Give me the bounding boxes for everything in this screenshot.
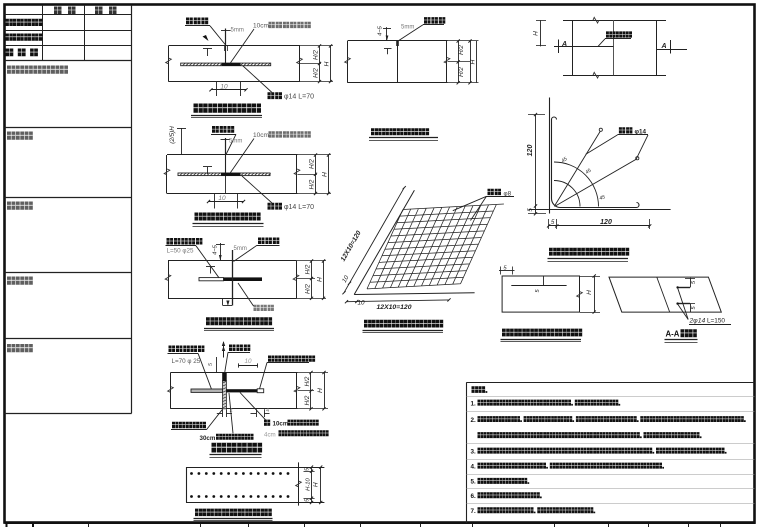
svg-text:H: H <box>324 61 331 66</box>
D2 joint line <box>225 155 227 173</box>
D4 joint filler board <box>223 381 227 409</box>
D8 leader <box>598 39 605 47</box>
D8 slab rectangle <box>563 20 666 22</box>
D5 dim H <box>320 467 322 502</box>
D3 label 填缝料 <box>258 238 279 245</box>
D4 leader 油浸软木板 <box>207 409 223 429</box>
svg-text:10: 10 <box>244 358 252 365</box>
seal cell 注册（执业）章 <box>7 66 68 74</box>
D1 right dims H/2 H/2 H <box>300 45 333 47</box>
svg-text:10: 10 <box>220 83 228 90</box>
D7 title 板锐角处钢筋平面布置 <box>364 320 443 328</box>
svg-text:H: H <box>317 388 324 393</box>
D11 dowel bar bottom <box>677 303 690 305</box>
D4 label 油浸软木板 <box>172 422 206 428</box>
svg-text:5mm: 5mm <box>234 246 247 252</box>
D3 dowel bar solid half <box>224 277 263 281</box>
D3 right dims <box>297 260 327 262</box>
D3 bottom notch dim <box>222 299 224 306</box>
D3 label 传力杆 圆钢 <box>167 238 188 245</box>
D9 label 圆钢 φ14 <box>619 127 632 133</box>
D4 right dims <box>298 372 329 374</box>
D6 slab outline <box>348 40 448 42</box>
D3 leader 填缝料 <box>234 245 258 261</box>
svg-text:H/2: H/2 <box>458 45 465 55</box>
D7 bottom dim <box>347 300 450 302</box>
svg-text:H-10: H-10 <box>306 478 312 491</box>
D10 title 胀缝角隅钢筋立面布置 <box>502 329 582 337</box>
D9 title 胀缝角隅钢筋平面布置 <box>549 248 629 256</box>
D5 title 板锐角处钢筋立面布置 <box>195 509 272 516</box>
svg-text:L=70 φ 25: L=70 φ 25 <box>172 358 201 365</box>
D4 label 聚氯乙烯小套筒 <box>268 356 315 362</box>
svg-text:H/2: H/2 <box>313 50 320 60</box>
svg-text:3.: 3. <box>471 448 477 455</box>
D3 joint line <box>232 250 234 306</box>
svg-text:H/2: H/2 <box>313 68 320 78</box>
D11 slab parallelogram <box>609 277 721 312</box>
svg-text:7.: 7. <box>471 508 477 515</box>
svg-text:H: H <box>322 172 329 177</box>
D2 title 纵向施工缝构造图 <box>195 213 261 221</box>
svg-text:10cm: 10cm <box>253 132 269 139</box>
D4 leader 小套筒 <box>260 363 268 390</box>
seal cell 竣工章 <box>7 344 33 352</box>
D8 break marks <box>593 17 599 23</box>
D1 groove depth marks <box>225 29 227 46</box>
svg-text:10: 10 <box>357 300 365 307</box>
D4 bottom dim 4 <box>256 409 258 417</box>
svg-text:A: A <box>661 43 667 50</box>
svg-text:L=150: L=150 <box>707 318 725 325</box>
D4 label 填缝料 <box>229 345 250 352</box>
svg-text:10cm: 10cm <box>273 421 289 428</box>
svg-text:4~5: 4~5 <box>378 25 384 36</box>
D8 H dim <box>540 20 542 46</box>
D3 label 涂沥青 <box>254 305 274 311</box>
D2 edge break marks <box>164 169 170 175</box>
D1 joint line <box>225 46 227 63</box>
D7 left slanted dim <box>344 188 404 293</box>
D1 leader 涂沥青 <box>230 29 254 64</box>
D4 leader 30cm 涂沥青 <box>229 393 233 433</box>
svg-text:A: A <box>561 41 567 48</box>
svg-text:10: 10 <box>218 195 226 202</box>
svg-text:L=50 φ25: L=50 φ25 <box>167 248 195 255</box>
D4 slab outline <box>171 372 298 374</box>
D6 edge break marks <box>345 58 351 64</box>
D11 joint slant line <box>657 277 670 312</box>
D4 top arrow joint width <box>223 342 225 358</box>
D3 edge break marks <box>165 275 171 281</box>
svg-text:6.: 6. <box>471 493 477 500</box>
D4 leader 填缝料 <box>225 352 228 372</box>
D1 tie bar <box>181 63 271 66</box>
D4 title 胀缝构造图 <box>212 443 263 453</box>
row label 设计人 <box>6 49 38 57</box>
seal cell 审图章 <box>7 277 33 285</box>
D2 bottom dim 10 <box>214 194 216 209</box>
D6 title 横向缩缝构造图一 <box>371 128 429 135</box>
D9 bottom dim 5 120 <box>548 219 550 229</box>
row label 专业负责人 <box>6 34 43 41</box>
svg-text:2.: 2. <box>471 417 477 424</box>
D9 inner arc <box>554 181 580 207</box>
notes heading 说明 <box>472 386 488 393</box>
svg-text:5mm: 5mm <box>229 139 242 145</box>
D4 leader 传力杆 <box>198 353 212 389</box>
seal cell 出图章 <box>7 202 33 210</box>
D6 depth T mark <box>384 48 392 50</box>
D4 leader 小套子 <box>240 393 266 420</box>
D1 slab outline <box>169 45 301 47</box>
D11 dowel bar top <box>677 287 690 289</box>
notes box frame <box>466 383 468 524</box>
seal cell 预留章 <box>7 132 33 140</box>
note 2 line 2 <box>478 432 702 438</box>
D9 label leaders <box>586 135 618 155</box>
svg-text:5mm: 5mm <box>231 28 244 34</box>
svg-text:120: 120 <box>527 145 534 157</box>
header cell 签名 <box>95 7 103 15</box>
svg-text:4cm: 4cm <box>264 431 276 438</box>
D2 right dims <box>298 154 332 156</box>
svg-text:H: H <box>586 290 593 295</box>
svg-text:1.: 1. <box>471 400 477 407</box>
D4 edge break marks <box>168 387 174 393</box>
D8 label 边缘钢筋 <box>606 31 632 37</box>
D3 leader 涂沥青 <box>238 283 254 306</box>
D9 edge lines <box>549 98 551 214</box>
header cell 实名 <box>54 7 62 15</box>
D3 dowel bar sleeve half <box>199 278 224 281</box>
D4 dowel end cap <box>257 389 264 393</box>
D7 label 钢筋 φ8 <box>488 189 502 195</box>
D6 joint line <box>397 41 399 83</box>
svg-text:(2/5)H: (2/5)H <box>169 126 176 144</box>
D1 title 纵向缩缝构造图 <box>194 104 262 113</box>
bottom title bar line <box>5 522 756 524</box>
D2 slab outline <box>167 154 298 156</box>
D5 right edge break <box>296 481 302 487</box>
D4 label 传力杆 圆钢 <box>169 346 190 353</box>
svg-text:12X10=120: 12X10=120 <box>377 304 412 311</box>
D1 bottom dim 10 <box>216 82 218 96</box>
svg-text:φ14 L=70: φ14 L=70 <box>284 204 314 211</box>
D8 centre joint line <box>613 20 615 75</box>
D10 right edge break <box>577 292 583 298</box>
svg-text:H/2: H/2 <box>309 159 316 169</box>
D2 groove depth mark <box>181 128 183 155</box>
D4 dowel bar solid half <box>226 389 257 392</box>
svg-text:4: 4 <box>266 408 269 414</box>
D7 mesh grid <box>367 204 504 289</box>
svg-text:H/2: H/2 <box>305 284 312 294</box>
D4 dowel bar sleeve half <box>191 389 223 392</box>
D6 leader 填缝料 <box>399 25 423 41</box>
svg-text:5.: 5. <box>471 479 477 486</box>
D10 corner bar line <box>511 285 566 287</box>
D2 leader 填缝料 <box>226 134 236 154</box>
svg-text:H: H <box>317 277 324 282</box>
D2 tie bar <box>178 173 270 176</box>
svg-text:A-A: A-A <box>666 330 680 339</box>
D10 dim 5 top-left <box>500 267 502 275</box>
D3 depth T mark <box>206 266 215 268</box>
D1 label 填缝料 <box>186 18 208 25</box>
D6 dim 4~5 <box>386 27 388 41</box>
D2 leader 涂沥青 <box>230 139 254 174</box>
svg-text:120: 120 <box>600 219 612 226</box>
D11 dim 5 bottom <box>690 304 692 313</box>
D10 dim H <box>580 276 600 278</box>
svg-text:H/2: H/2 <box>458 67 465 77</box>
svg-text:φ14 L=70: φ14 L=70 <box>284 94 314 101</box>
D5 rebar dots <box>190 472 193 475</box>
D2 label 填缝料 <box>212 126 234 133</box>
D4 dim 10 <box>238 363 240 367</box>
svg-text:2φ14: 2φ14 <box>689 318 706 325</box>
D9 radial bar 2 <box>555 159 637 206</box>
D2 label 拉杆 φ14 L=70 <box>242 176 272 203</box>
D9 corner bar with hooks <box>552 117 640 208</box>
D11 dim 5 top <box>690 278 692 288</box>
D11 leaders to label <box>678 288 689 320</box>
D9 left dim 120 5 <box>528 114 545 116</box>
D7 leaders <box>453 196 487 210</box>
svg-text:H: H <box>312 482 319 487</box>
D4 sealant cap <box>222 373 227 382</box>
D8 section mark A left <box>558 40 560 54</box>
svg-text:10cm: 10cm <box>253 23 269 30</box>
svg-text:H/2: H/2 <box>304 395 311 405</box>
D8 mid horizontal line <box>554 46 613 48</box>
svg-text:5mm: 5mm <box>401 25 414 31</box>
row label 项目负责人 <box>6 19 43 26</box>
D3 dim 4~5 <box>220 243 222 261</box>
D4 label 长10cm 的小套子留 <box>264 420 270 426</box>
title block table <box>5 14 132 16</box>
svg-text:H: H <box>533 31 540 36</box>
D6 label 填缝料 <box>424 17 445 24</box>
D1 label 拉杆 φ14 L=70 <box>243 66 273 93</box>
D9 outer arc <box>554 162 599 207</box>
svg-text:H/2: H/2 <box>305 264 312 274</box>
svg-text:30cm: 30cm <box>200 435 216 442</box>
svg-text:H/2: H/2 <box>309 179 316 189</box>
D3 leader 传力杆 <box>196 246 219 278</box>
svg-text:4.: 4. <box>471 463 477 470</box>
D3 slab outline <box>168 260 297 262</box>
D8 section mark A right <box>657 49 687 51</box>
svg-text:4~5: 4~5 <box>213 244 219 255</box>
D7 slab corner edge lines <box>354 293 474 295</box>
D6 right dims <box>448 40 479 42</box>
D4 bottom dim 2 <box>222 409 224 417</box>
D5 slab rectangle <box>186 467 324 469</box>
D10 slab rectangle <box>502 276 579 312</box>
D5 dim 5 / H-10 / 5 <box>311 467 313 502</box>
D1 leader 填缝料 <box>210 26 226 46</box>
svg-text:H: H <box>470 59 477 64</box>
D3 title 横向施工缝构造图 <box>206 317 272 325</box>
svg-text:H/2: H/2 <box>304 376 311 386</box>
D9 radial bar 1 <box>555 131 601 206</box>
D1 edge break marks <box>166 58 172 64</box>
